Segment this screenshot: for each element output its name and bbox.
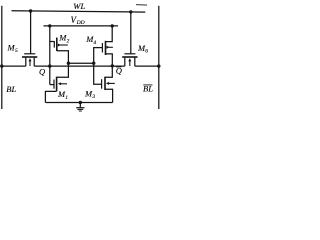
wire word line WL (top horizontal) (12, 11, 146, 12)
junction WL and M5 gate (29, 9, 32, 12)
body lead M3 (108, 82, 115, 84)
transistor M3 channel (104, 77, 106, 90)
transistor M4 gate plate (102, 43, 103, 53)
transistor M4 channel (105, 41, 107, 55)
body arrow M1 (NMOS, pointing into channel) (58, 82, 61, 85)
ground bar 2 (77, 108, 83, 110)
transistor M5 gate plate (24, 53, 35, 54)
ground bar 1 (76, 107, 84, 109)
wire BL to M5 source (2, 65, 26, 67)
wire M4 and M3 drains to node Q-bar column (105, 54, 112, 77)
junction node Q and upper cross wire (67, 62, 70, 65)
body lead M6 (129, 61, 131, 67)
wire cross-coupling upper (Q to right gates) (68, 62, 93, 64)
transistor M1 gate plate (53, 80, 54, 89)
svg-text:3: 3 (91, 94, 95, 100)
wire ground rail (45, 102, 112, 104)
transistor M2 gate plate (54, 41, 55, 48)
BL-bar overline (143, 84, 152, 86)
wire node Q horizontal (M5 to M6 side) (34, 65, 125, 67)
wire M6 drain to BL-bar (135, 65, 159, 67)
node Q-bar overline (116, 66, 121, 68)
wire M6 gate to WL (130, 12, 132, 54)
body arrow M4 (PMOS, pointing away from channel) (107, 46, 110, 49)
wire M1 drain to node Q column (57, 67, 69, 78)
wire right inverter gate line with stubs to M4 and M3 (94, 48, 103, 85)
junction node Q-bar column and wire (111, 64, 114, 67)
transistor M1 channel (56, 77, 58, 92)
junction right gate line and upper cross wire (92, 62, 95, 65)
transistor M5 source leg (25, 58, 27, 67)
junction gate line and node wire (48, 64, 51, 67)
svg-text:1: 1 (65, 95, 68, 101)
transistor M2 channel (56, 38, 58, 51)
body arrow M2 (PMOS, pointing away from channel) (58, 44, 61, 47)
wire M4 source to VDD (106, 26, 113, 42)
svg-text:4: 4 (93, 40, 96, 46)
transistor M6 gate plate (124, 53, 135, 54)
wire bit line BL (left vertical) (1, 6, 3, 109)
junction BL-bar and wire (157, 64, 160, 67)
svg-text:WL: WL (73, 1, 85, 11)
transistor M5 drain leg (33, 58, 35, 67)
junction WL and M6 gate (129, 10, 132, 13)
body arrow M5 (NMOS, pointing into channel) (29, 58, 32, 61)
wire VDD supply rail (44, 25, 119, 27)
wire M3 source to ground rail (105, 89, 113, 102)
transistor M5 channel (22, 56, 37, 58)
wire M5 gate to WL (30, 11, 32, 54)
svg-text:DD: DD (76, 20, 85, 26)
body lead M5 (29, 61, 31, 67)
ground bar 3 (79, 110, 82, 112)
svg-text:2: 2 (67, 38, 70, 44)
transistor M6 drain leg (124, 58, 126, 67)
body lead M1 (60, 83, 67, 85)
junction BL and node Q wire (0, 64, 3, 67)
body lead M4 (109, 46, 113, 48)
wire left inverter gate line (49, 42, 51, 85)
svg-text:6: 6 (145, 49, 148, 55)
body arrow M6 (NMOS, pointing into channel) (128, 58, 131, 61)
wire bit line BL-bar (right vertical) (158, 6, 160, 109)
svg-text:5: 5 (15, 48, 18, 54)
svg-text:BL: BL (6, 84, 16, 94)
junction VDD and M4 source (111, 24, 114, 27)
transistor M6 channel (122, 56, 137, 58)
scan artifact dash top right (136, 4, 147, 6)
svg-text:Q: Q (39, 67, 45, 77)
body arrow M3 (NMOS, pointing into channel) (106, 82, 109, 85)
wire M2 drain to node Q column (57, 51, 69, 67)
junction VDD and M2 source (48, 24, 51, 27)
transistor M6 source leg (134, 58, 136, 67)
body lead M2 (60, 44, 68, 46)
wire gate stub M1 (50, 84, 54, 86)
wire M1 source to ground rail (45, 91, 56, 102)
wire VDD to M2 source (50, 26, 55, 42)
ground stem (79, 103, 81, 108)
transistor M3 gate plate (101, 79, 102, 89)
junction ground rail and ground symbol (79, 101, 82, 104)
